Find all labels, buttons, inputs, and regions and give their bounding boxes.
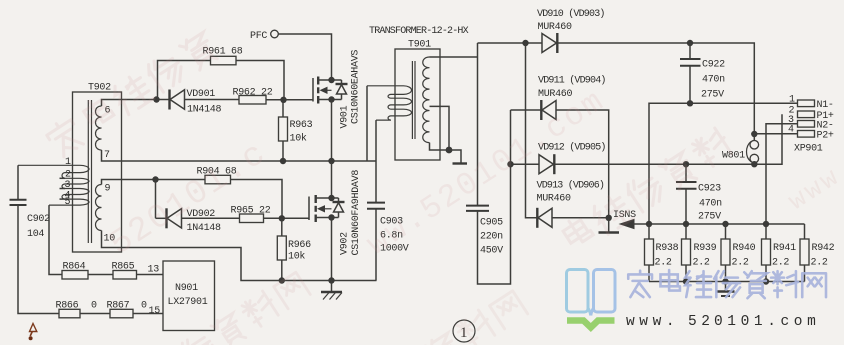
resistor R963 [279, 100, 313, 161]
node rail R940/ground [722, 278, 728, 284]
faint diagonal watermark right-middle [560, 126, 734, 256]
svg-text:MUR460: MUR460 [537, 194, 572, 205]
T902 core [88, 100, 91, 243]
wire VD911 anode down to VD913 node [556, 110, 609, 218]
hot-line flame mark [29, 324, 37, 341]
faint diagonal watermark bottom-center [425, 289, 529, 345]
transformer T901 label [369, 26, 469, 51]
svg-text:C922: C922 [702, 60, 725, 71]
logo green swoosh [567, 321, 615, 328]
diode VD901 [157, 89, 222, 116]
circled 1 mark [453, 320, 475, 342]
diode VD902 [156, 208, 222, 234]
faint diagonal watermark center [360, 82, 611, 263]
wire R867 to N901 pin 15 [133, 306, 163, 317]
resistor R865 [112, 262, 137, 280]
svg-text:4: 4 [788, 125, 794, 136]
svg-text:2.2: 2.2 [811, 258, 828, 269]
ISNS arrow and label [613, 210, 649, 229]
svg-text:R866: R866 [56, 301, 79, 312]
svg-text:10k: 10k [288, 251, 305, 263]
svg-text:275V: 275V [698, 212, 721, 223]
svg-text:PFC: PFC [250, 31, 267, 42]
ISNS sense rail [649, 223, 805, 225]
faint diagonal watermark left-middle digits [103, 135, 274, 264]
faint diagonal watermark bottom-left [178, 270, 311, 345]
wire T901 primary top to midpoint rail [366, 86, 368, 161]
logo text blue hanzi [628, 270, 826, 298]
node V902 source [328, 214, 334, 220]
logo book left page [567, 270, 591, 316]
svg-text:10k: 10k [290, 133, 307, 145]
svg-text:1: 1 [789, 95, 795, 106]
node secondary ground [446, 147, 453, 154]
svg-text:R962 22: R962 22 [233, 88, 273, 99]
svg-text:www.: www. [626, 314, 679, 330]
node rail A / W801 top [751, 131, 757, 137]
wire R965 to V902 gate [264, 217, 310, 219]
diode VD911 MUR460 [511, 75, 606, 121]
capacitor C922 [680, 43, 725, 103]
wire R904 to V902 gate node [231, 180, 283, 219]
logo book right page [591, 270, 615, 316]
svg-text:520101.c: 520101.c [103, 135, 274, 264]
node rail R939 [683, 278, 689, 284]
wire R864 to R865 [88, 274, 113, 276]
svg-text:V902: V902 [340, 232, 351, 255]
node V901 gate [280, 97, 286, 103]
node ISNS N2-/R941 [763, 221, 769, 227]
wire pin4 P2+ [754, 133, 797, 135]
node V902 source on ground rail [328, 277, 334, 283]
capacitor C902 [10, 200, 51, 240]
svg-text:R965 22: R965 22 [231, 206, 271, 217]
svg-text:N901: N901 [175, 283, 198, 294]
svg-text:470n: 470n [702, 75, 725, 86]
wire output rail B [649, 103, 798, 224]
svg-text:MUR460: MUR460 [538, 22, 573, 33]
node C922 top [687, 40, 693, 46]
svg-text:1N4148: 1N4148 [187, 223, 222, 234]
wire pin6 to VD901 junction [102, 100, 157, 107]
transistor V901 MOSFET [284, 50, 362, 129]
resistor R941 [762, 224, 797, 282]
svg-text:R939: R939 [694, 243, 717, 254]
ground symbol under sense rail [717, 282, 735, 297]
T902 primary winding pins 1-5 [18, 165, 89, 205]
svg-text:TRANSFORMER-12-2-HX: TRANSFORMER-12-2-HX [369, 26, 469, 37]
capacitor C923 [676, 164, 722, 224]
pin labels 1-5 [65, 157, 72, 208]
capacitor C905 [466, 43, 503, 257]
IC N901 LX27901 [163, 261, 215, 331]
svg-text:VD901: VD901 [187, 89, 216, 100]
node V902 drain [328, 195, 334, 201]
node V901 source [328, 96, 334, 102]
svg-text:VD911 (VD904): VD911 (VD904) [538, 75, 606, 87]
svg-text:2.2: 2.2 [772, 258, 789, 269]
wire C905 bottom to VD911/VD912 column [478, 110, 511, 284]
svg-text:T902: T902 [88, 83, 111, 94]
node ISNS R938 [646, 221, 652, 227]
wire C903 bottom to ground rail [375, 209, 377, 280]
resistor R864 [62, 262, 88, 280]
svg-text:220n: 220n [480, 232, 503, 243]
svg-text:R940: R940 [733, 243, 756, 254]
node C923 top [683, 161, 689, 167]
svg-text:5: 5 [65, 197, 71, 208]
svg-text:C902: C902 [27, 214, 50, 225]
T901 core [412, 61, 415, 139]
svg-text:104: 104 [27, 229, 44, 240]
svg-text:1N4148: 1N4148 [187, 105, 222, 116]
svg-text:www: www [783, 161, 844, 217]
wire pin9 to R904/VD902 node [102, 180, 156, 185]
PFC terminal [250, 30, 278, 42]
svg-text:VD913 (VD906): VD913 (VD906) [537, 180, 605, 192]
node R966 bottom on ground rail [279, 277, 285, 283]
svg-text:LX27901: LX27901 [168, 297, 208, 308]
node V901 drain [328, 77, 334, 83]
jumper W801 [722, 134, 759, 164]
svg-text:P2+: P2+ [817, 131, 834, 142]
T901 primary winding [367, 86, 412, 120]
logo url text [626, 314, 820, 330]
resistor R942 [800, 224, 835, 282]
primary ground symbol [321, 281, 342, 300]
resistor R866 [56, 301, 98, 318]
transformer T902 box [73, 83, 122, 253]
diode VD912 [511, 142, 606, 175]
svg-text:C905: C905 [480, 218, 503, 229]
secondary sense ground rail [649, 281, 805, 283]
T902 secondary winding 9-10 [96, 184, 116, 245]
ground symbol at VD913 [599, 218, 620, 233]
svg-text:CS10N60EAHAVS: CS10N60EAHAVS [351, 50, 362, 124]
wire pin3 N2- [766, 124, 798, 224]
transistor V902 MOSFET [309, 170, 362, 256]
svg-text:13: 13 [148, 265, 160, 276]
svg-text:V901: V901 [340, 105, 351, 128]
svg-text:2.2: 2.2 [732, 258, 749, 269]
T902 secondary winding 6-7 [96, 106, 111, 162]
wire node to VD902 [155, 180, 157, 219]
node VD912 anode [507, 161, 513, 167]
wire VD901 to R962 [185, 99, 240, 101]
wire R962 to V901 gate node [266, 99, 313, 101]
faint diagonal watermark top-left [44, 29, 219, 159]
T901 secondary winding [423, 57, 430, 143]
wire pin1 to left rail [17, 165, 19, 199]
resistor R939 [682, 224, 717, 282]
svg-text:0: 0 [91, 301, 97, 312]
svg-text:1: 1 [65, 157, 71, 168]
wire V902 source to ground rail [331, 218, 333, 281]
svg-text:0101.com: 0101.com [714, 314, 820, 330]
wire pin7 to midpoint rail [102, 150, 377, 161]
svg-text:CS10N60FA9HDAV8: CS10N60FA9HDAV8 [351, 170, 362, 256]
secondary ground symbol [449, 150, 467, 164]
node rail R941 [763, 278, 769, 284]
wire midpoint to V902 drain [331, 161, 333, 198]
resistor R938 [645, 224, 679, 282]
svg-text:R941: R941 [773, 243, 796, 254]
resistor R962 [233, 88, 273, 105]
wire R866 to R867 [80, 313, 110, 315]
resistor R940 [721, 224, 756, 282]
svg-text:R942: R942 [812, 243, 835, 254]
svg-text:15: 15 [149, 306, 161, 317]
svg-text:52: 52 [688, 314, 715, 330]
svg-text:R963: R963 [290, 120, 313, 131]
node ISNS C923/R939 [683, 221, 689, 227]
svg-text:R867: R867 [107, 301, 130, 312]
resistor R867 [107, 301, 148, 318]
node midpoint [328, 158, 334, 164]
wire R865 to N901 pin 13 [137, 265, 164, 276]
wire V901 source to midpoint rail [331, 100, 333, 162]
node pin6/VD901/R961 [153, 96, 159, 102]
svg-text:C923: C923 [698, 184, 721, 195]
wire VD912 cathode rail C [554, 114, 782, 164]
diode VD910 MUR460 [537, 8, 605, 53]
svg-text:470n: 470n [699, 199, 722, 210]
wire pin5 down to R864 [49, 205, 62, 274]
diode VD913 MUR460 [537, 180, 609, 228]
wire pin10 to primary ground rail [102, 231, 377, 281]
wire PFC to V901 drain [278, 34, 331, 80]
svg-text:450V: 450V [480, 246, 503, 257]
wire secondary tap to ground node [430, 106, 450, 150]
resistor R966 [277, 218, 311, 280]
node C922 bottom [687, 100, 693, 106]
node pin9/R904/VD902 [152, 176, 158, 182]
resistor R961 with connection verticals [158, 47, 285, 100]
svg-text:XP901: XP901 [794, 144, 823, 155]
svg-text:R864: R864 [63, 262, 86, 273]
svg-text:W801: W801 [722, 151, 745, 162]
svg-text:R938: R938 [656, 243, 679, 254]
node VD913 anode / ground [606, 215, 612, 221]
svg-text:9: 9 [105, 184, 111, 195]
svg-text:0: 0 [141, 301, 147, 312]
svg-text:N1-: N1- [817, 100, 834, 111]
wire secondary bottom to ground node [430, 143, 450, 150]
svg-text:3: 3 [65, 180, 71, 191]
resistor R965 [231, 206, 271, 223]
wire left rail down to bottom row [18, 206, 59, 314]
resistor R904 [156, 167, 237, 184]
wire VD902 to R965 [182, 217, 240, 219]
wire T901 primary bottom to C903 [375, 120, 377, 203]
svg-text:R966: R966 [288, 240, 311, 251]
wire rectifier top rail [478, 42, 543, 44]
svg-text:VD910 (VD903): VD910 (VD903) [537, 8, 605, 20]
wire VD910 cathode to output rail A [557, 43, 754, 134]
wire secondary top to rectifier rail [430, 56, 478, 58]
svg-text:2.2: 2.2 [693, 258, 710, 269]
node ISNS R940 [722, 221, 728, 227]
wire junction down to VD913 cathode [526, 43, 538, 218]
connector XP901 [788, 95, 834, 155]
node R963 bottom on rail [280, 158, 286, 164]
svg-text:275V: 275V [701, 90, 724, 101]
node V902 gate [279, 215, 285, 221]
capacitor C903 [367, 203, 409, 255]
node W801 bottom on rail C [751, 161, 757, 167]
T901 box [395, 49, 440, 160]
faint watermark right edge [783, 161, 844, 217]
svg-text:2.2: 2.2 [655, 258, 672, 269]
node VD910 anode junction [522, 40, 528, 46]
svg-text:7: 7 [104, 150, 110, 161]
